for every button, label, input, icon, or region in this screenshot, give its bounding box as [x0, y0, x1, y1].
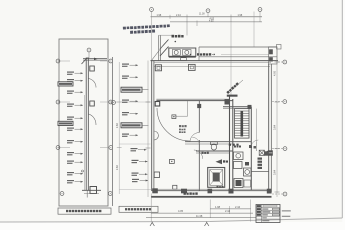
highlighted label box 2 — [58, 121, 73, 125]
section mark left — [150, 222, 154, 226]
left dimension line — [147, 61, 149, 198]
hatch diagonals — [160, 40, 169, 50]
page bottom edge shadow — [0, 218, 342, 222]
big door arc — [157, 108, 190, 141]
bottom wall posts — [152, 188, 158, 193]
panel border — [59, 39, 108, 206]
door arc at partition bottom — [190, 133, 199, 143]
left room small fixtures — [169, 160, 174, 164]
right grid bubbles — [283, 60, 287, 64]
junction marks — [249, 145, 252, 148]
bottom outer wall heavy — [152, 190, 272, 192]
panel wall vertical — [85, 58, 87, 191]
small partition with switch — [187, 101, 189, 116]
door arc hallway — [194, 150, 203, 159]
top grid bubble mid — [206, 9, 210, 13]
scaffold label smudge — [172, 35, 184, 38]
middle caption box — [119, 206, 158, 212]
central dividing wall heavy — [229, 96, 231, 192]
right outer wall — [268, 64, 270, 192]
laundry label smudge — [197, 53, 215, 55]
window square mid — [90, 101, 95, 106]
door arc mid — [89, 114, 97, 125]
highlighted label box 3 — [121, 87, 142, 92]
top-left corner post — [155, 65, 161, 71]
corridor line right of stair — [255, 109, 257, 142]
pipe bulge on left wall — [154, 131, 159, 140]
grid link lines — [114, 101, 151, 103]
left outer wall — [151, 61, 153, 192]
window on left wall — [154, 172, 159, 178]
partition x=199 — [198, 101, 200, 133]
wall segment right of bath — [251, 171, 268, 173]
meter cell stack — [258, 158, 263, 160]
foundation label smudge — [184, 192, 198, 194]
middle grid bubble — [112, 101, 116, 105]
left panel caption box — [58, 208, 111, 214]
stair treads — [235, 111, 250, 136]
page right edge shadow — [341, 0, 343, 218]
wc label smudge — [202, 152, 209, 154]
handrail diagonal note smudge — [226, 82, 239, 94]
dots row — [229, 144, 231, 146]
annotation clusters middle — [122, 64, 138, 67]
corner post top-right — [277, 45, 282, 50]
post mid — [197, 104, 201, 108]
UB bath unit — [208, 168, 225, 188]
stair well — [235, 109, 250, 139]
wc wall — [196, 150, 233, 152]
dark fixture right of vanity — [245, 162, 249, 166]
window square upper — [90, 66, 95, 71]
laundry room — [169, 48, 196, 56]
interior wall y=100.5 — [156, 100, 233, 102]
bottom door square — [90, 187, 97, 194]
small partition right — [255, 142, 257, 151]
grid line vertical x=231 — [230, 22, 232, 96]
stair center rail — [241, 111, 244, 137]
bubble leader lines — [60, 60, 70, 62]
toilet — [211, 142, 218, 145]
highlighted label box 4 — [121, 123, 142, 128]
dim line A — [210, 208, 251, 210]
main top wall — [151, 60, 279, 62]
ground heavy line — [151, 196, 272, 198]
top grid bubble left — [150, 8, 154, 12]
top-left service block — [158, 35, 160, 60]
middle section border line — [112, 57, 114, 206]
title block side notes — [282, 210, 291, 211]
dim line C — [146, 217, 256, 219]
hioki marker — [264, 150, 268, 155]
top-right corner block — [269, 47, 278, 64]
stair top wall — [223, 106, 252, 108]
vanity label smudge — [234, 146, 241, 148]
door arc upper — [89, 79, 97, 88]
right grid bubbles — [109, 59, 113, 63]
post at x=190 — [189, 64, 196, 70]
dim line B — [151, 212, 253, 214]
post top-left of room — [155, 102, 160, 107]
stair right wall post — [248, 105, 252, 109]
section mark mid — [205, 222, 209, 226]
dimension line 1 — [151, 16, 263, 18]
dark label under x231 line — [227, 95, 238, 97]
meter box below — [181, 58, 187, 61]
corridor line — [154, 66, 270, 68]
left grid bubbles — [56, 59, 60, 63]
annotation clusters left panel — [67, 72, 83, 75]
dimension line 2 — [170, 21, 262, 23]
top outer wall right part — [199, 46, 277, 48]
stair right wall — [250, 107, 252, 142]
UB label smudge — [217, 186, 224, 188]
top grid bubble — [87, 48, 91, 52]
corridor bottom wall — [185, 141, 252, 143]
panel top wall head — [83, 58, 107, 60]
laundry heavy sill — [169, 56, 196, 58]
middle dim line — [118, 62, 120, 194]
top grid bubble right — [258, 8, 262, 12]
small dot on wall — [82, 170, 84, 172]
right dimension line — [276, 47, 278, 197]
highlighted label box 1 — [58, 82, 73, 86]
post at corridor — [225, 100, 230, 105]
vanity column fixtures — [250, 142, 252, 191]
arrow marker room2 — [216, 159, 223, 164]
room label smudge — [179, 125, 187, 133]
